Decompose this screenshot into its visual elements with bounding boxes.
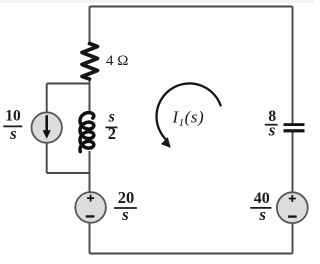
svg-text:s: s — [268, 121, 276, 140]
current source arrow — [45, 115, 48, 131]
label s/2 fraction — [105, 109, 117, 144]
wire right lower — [292, 132, 294, 193]
V2 plus sign — [289, 195, 296, 202]
svg-text:4 Ω: 4 Ω — [106, 53, 128, 69]
voltage source V2 40/s circle — [277, 192, 308, 223]
svg-text:10: 10 — [5, 108, 21, 125]
mesh current arc I1 — [157, 83, 221, 140]
V2 minus sign — [288, 215, 297, 217]
svg-text:2: 2 — [108, 124, 116, 143]
mesh arrowhead — [161, 137, 171, 148]
capacitor C 8/s plates — [284, 123, 305, 126]
label 20/s fraction — [114, 188, 137, 224]
svg-text:s: s — [258, 205, 266, 224]
svg-text:s: s — [108, 109, 115, 126]
inductor L s/2 coil — [80, 113, 94, 152]
wire branch bottom horizontal — [47, 172, 90, 174]
wire top — [90, 6, 293, 8]
current source IS circle — [32, 112, 62, 142]
wire left mid2 — [89, 151, 91, 193]
wire right upper — [292, 7, 294, 124]
wire branch left lower — [46, 143, 48, 174]
wire branch left upper — [46, 84, 48, 114]
top border band — [0, 0, 314, 3]
label 40/s fraction — [250, 190, 271, 224]
wire branch top horizontal — [47, 83, 90, 85]
wire left top — [89, 7, 91, 45]
label 10/s fraction — [3, 108, 22, 144]
wire left mid1 — [89, 78, 91, 113]
resistor R 4ohm zigzag — [82, 44, 98, 80]
label 8/s fraction — [265, 108, 278, 140]
svg-text:20: 20 — [118, 188, 135, 207]
wire right bottom — [292, 224, 294, 254]
wire left bottom — [89, 224, 91, 254]
voltage source V1 20/s circle — [75, 192, 106, 223]
svg-text:I1(s): I1(s) — [172, 108, 205, 129]
wire bottom — [90, 253, 293, 255]
V1 plus sign — [87, 195, 94, 202]
V1 minus sign — [86, 215, 95, 217]
svg-text:s: s — [9, 124, 17, 143]
svg-text:s: s — [121, 205, 129, 224]
